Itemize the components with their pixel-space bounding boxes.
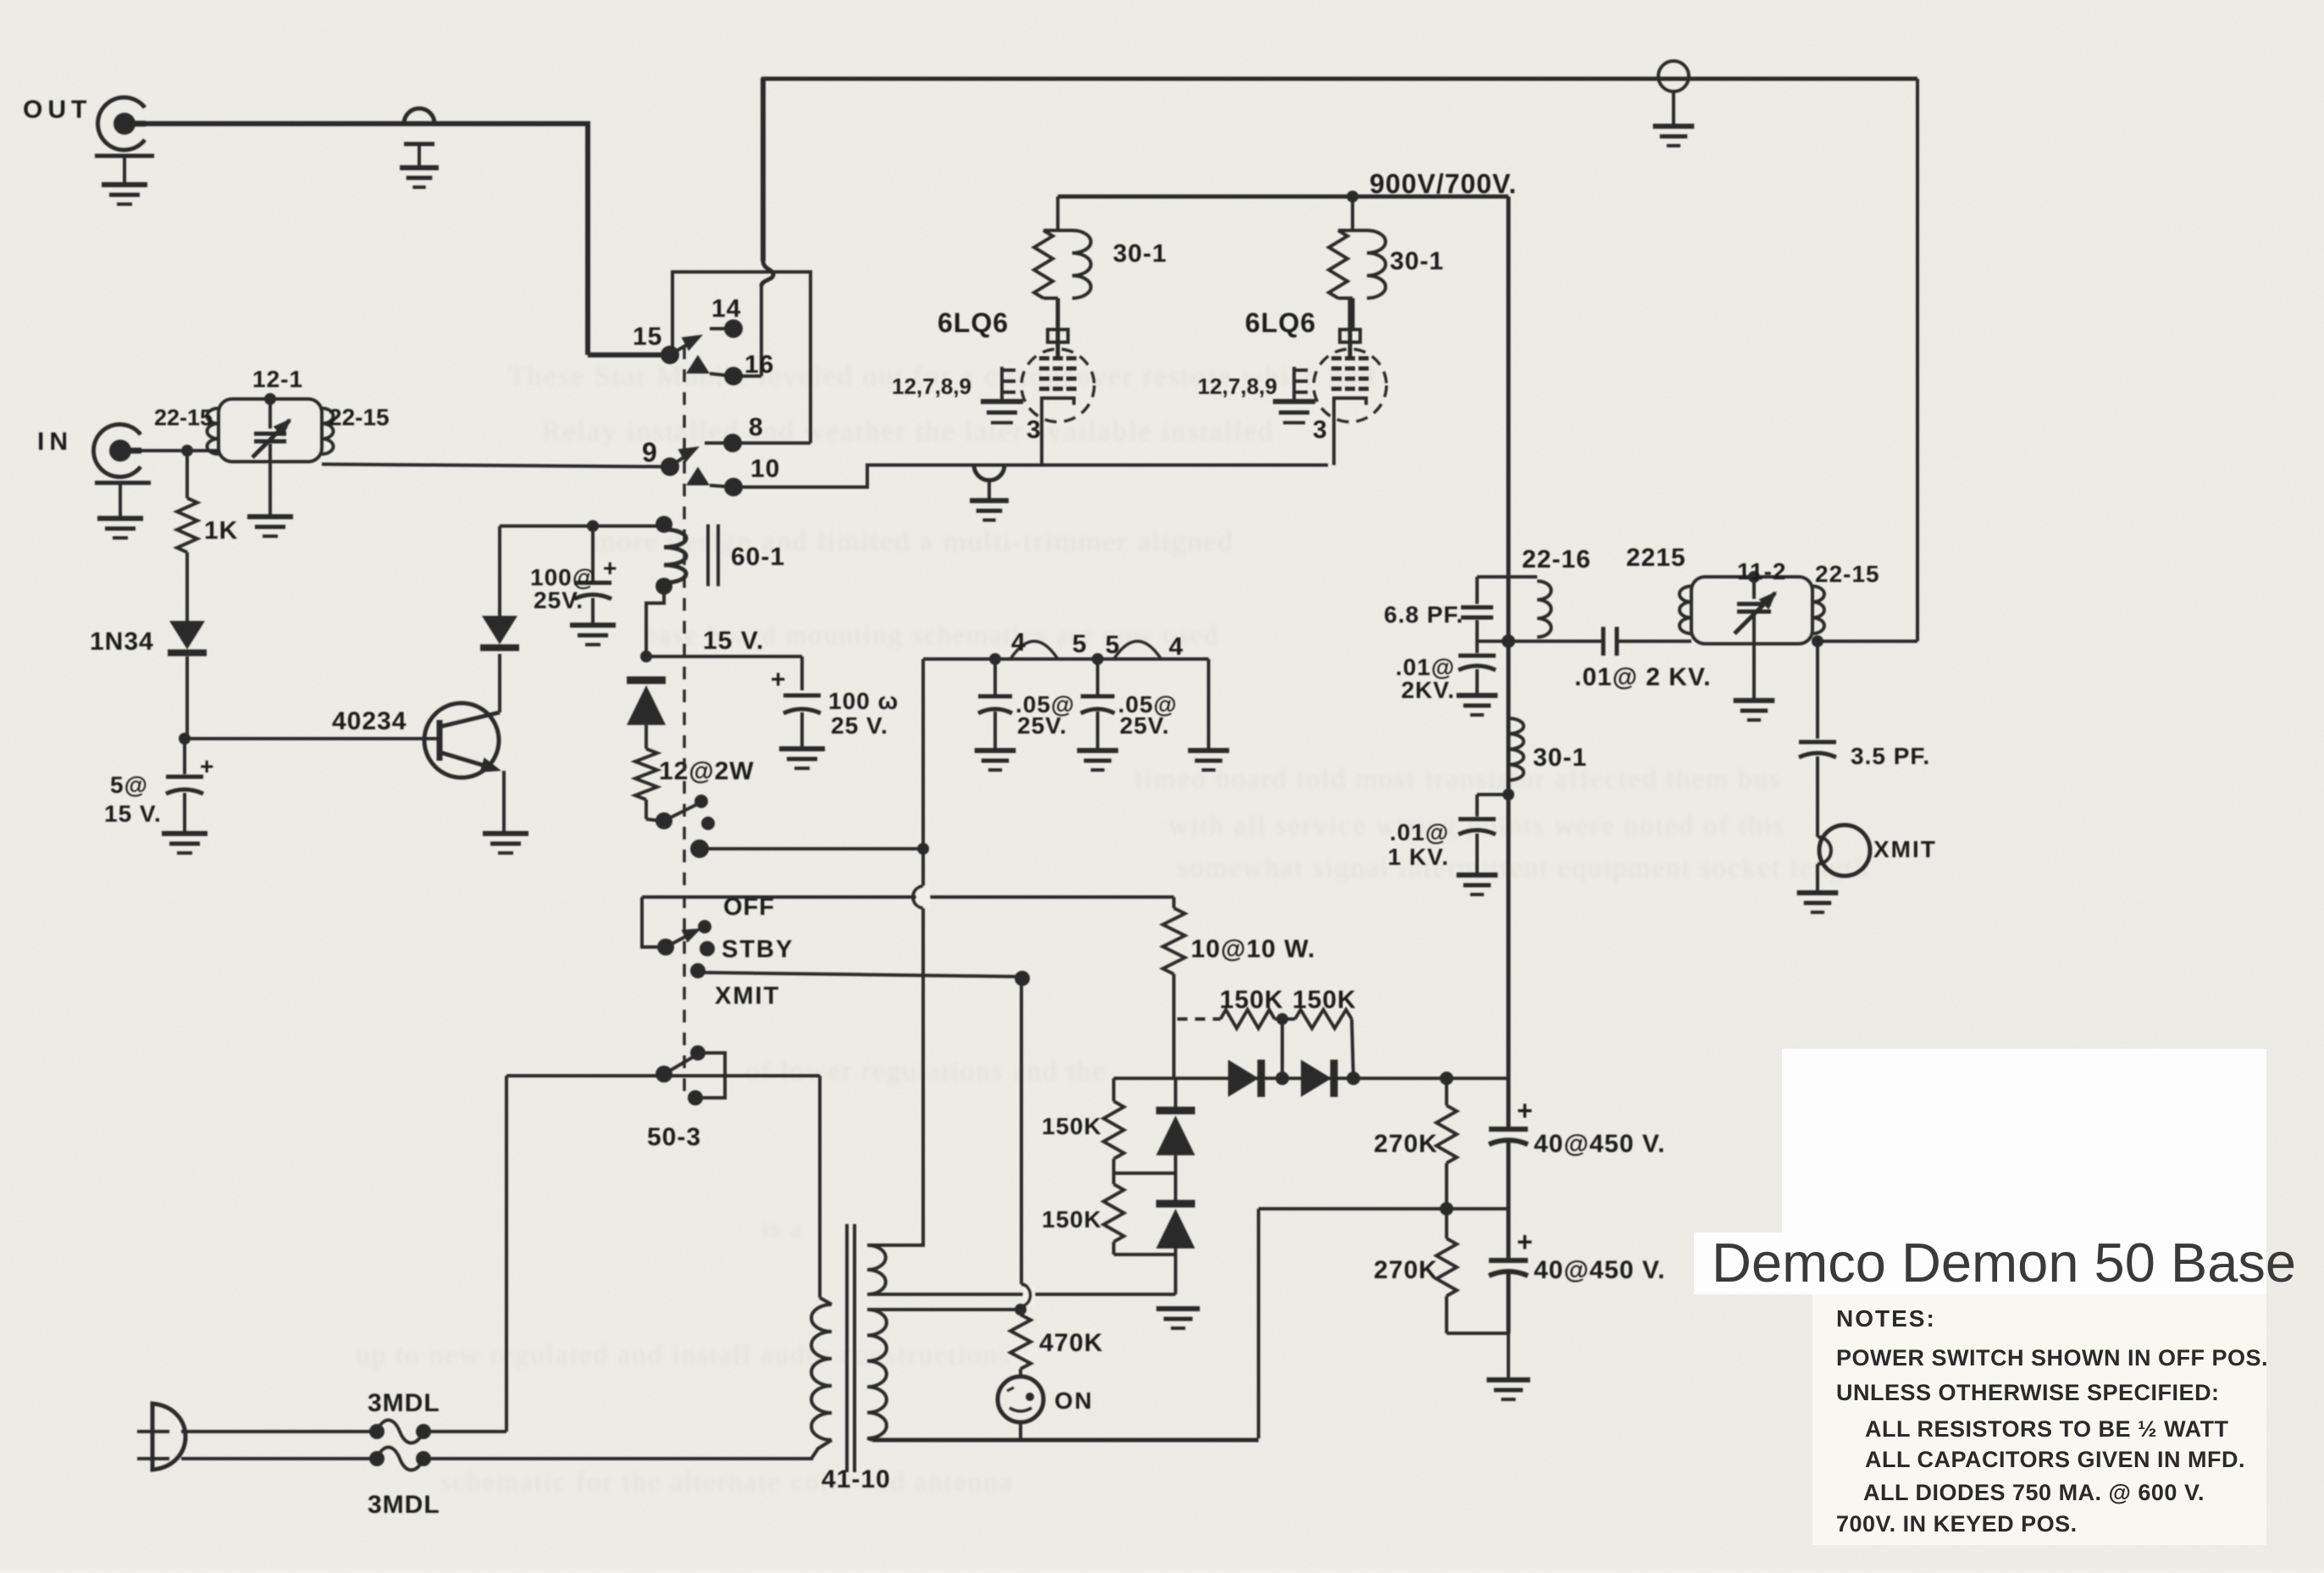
svg-text:150K: 150K [1292,986,1357,1014]
svg-text:15: 15 [633,323,662,351]
svg-text:30-1: 30-1 [1113,240,1167,268]
svg-text:40@450 V.: 40@450 V. [1534,1256,1666,1284]
svg-text:schematic for the alternate co: schematic for the alternate coils and an… [440,1467,1013,1498]
svg-text:4: 4 [1011,629,1026,656]
svg-text:25V.: 25V. [534,587,584,613]
svg-text:150K: 150K [1042,1113,1102,1139]
svg-text:270K: 270K [1374,1130,1438,1158]
svg-text:12,7,8,9: 12,7,8,9 [1198,374,1277,399]
svg-text:16: 16 [744,351,774,379]
svg-text:22-16: 22-16 [1522,546,1591,573]
svg-text:XMIT: XMIT [715,983,780,1010]
svg-text:10: 10 [750,455,780,483]
svg-text:2KV.: 2KV. [1401,677,1455,703]
svg-text:3MDL: 3MDL [368,1491,440,1519]
svg-text:25 V.: 25 V. [831,712,888,739]
svg-text:3.5 PF.: 3.5 PF. [1851,743,1930,769]
svg-text:more design and limited a mult: more design and limited a multi-trimmer … [593,526,1234,557]
svg-text:3MDL: 3MDL [368,1389,440,1417]
svg-text:3: 3 [1026,416,1042,444]
svg-text:700V. IN KEYED POS.: 700V. IN KEYED POS. [1836,1511,2078,1537]
svg-text:22-15: 22-15 [329,404,390,430]
svg-text:+: + [1517,1227,1534,1257]
svg-text:5@: 5@ [110,772,148,798]
svg-text:5: 5 [1072,630,1087,658]
svg-text:STBY: STBY [722,936,794,963]
svg-text:+: + [603,555,617,581]
svg-text:somewhat signal intermittent e: somewhat signal intermittent equipment s… [1177,853,1870,883]
svg-text:60-1: 60-1 [731,543,785,571]
svg-text:ON: ON [1054,1387,1093,1414]
svg-text:15 V.: 15 V. [703,627,764,655]
svg-text:150K: 150K [1220,986,1284,1014]
svg-text:14: 14 [711,295,741,323]
svg-text:10@10 W.: 10@10 W. [1191,935,1315,963]
svg-text:22-15: 22-15 [154,405,213,430]
svg-text:2215: 2215 [1626,544,1686,572]
svg-text:ALL CAPACITORS GIVEN IN MFD.: ALL CAPACITORS GIVEN IN MFD. [1865,1447,2245,1472]
svg-text:25V.: 25V. [1017,712,1067,739]
svg-text:timed board told most transist: timed board told most transistor affecte… [1135,764,1782,795]
svg-text:3: 3 [1313,416,1328,444]
svg-text:+: + [771,666,787,694]
svg-text:NOTES:: NOTES: [1836,1305,1936,1332]
svg-text:8: 8 [749,413,764,441]
svg-text:6LQ6: 6LQ6 [938,307,1009,338]
svg-text:is a: is a [762,1215,804,1243]
svg-text:11-2: 11-2 [1737,558,1787,584]
svg-text:15 V.: 15 V. [104,800,162,827]
svg-text:1K: 1K [204,517,238,545]
svg-text:ALL RESISTORS TO BE ½ WATT: ALL RESISTORS TO BE ½ WATT [1865,1416,2229,1442]
svg-text:ALL DIODES 750 MA. @ 600 V.: ALL DIODES 750 MA. @ 600 V. [1863,1480,2205,1505]
svg-text:100 ω: 100 ω [828,688,899,714]
svg-text:40234: 40234 [332,707,407,735]
svg-text:40@450 V.: 40@450 V. [1534,1130,1666,1158]
svg-text:22-15: 22-15 [1815,561,1880,587]
svg-text:OUT: OUT [23,96,91,124]
svg-text:1 KV.: 1 KV. [1388,844,1449,870]
svg-text:50-3: 50-3 [647,1123,701,1151]
svg-text:up to new regulated and instal: up to new regulated and install audio co… [356,1340,1011,1371]
svg-text:9: 9 [642,437,658,468]
svg-text:900V/700V.: 900V/700V. [1369,169,1517,199]
svg-text:4: 4 [1169,633,1184,661]
svg-text:470K: 470K [1039,1329,1104,1357]
svg-text:150K: 150K [1042,1206,1102,1232]
svg-text:25V.: 25V. [1120,712,1170,739]
svg-text:5: 5 [1105,631,1120,659]
svg-text:12,7,8,9: 12,7,8,9 [892,374,971,399]
svg-text:12@2W: 12@2W [659,757,755,785]
svg-text:.01@ 2 KV.: .01@ 2 KV. [1574,663,1712,691]
svg-text:6LQ6: 6LQ6 [1245,307,1316,338]
svg-text:IN: IN [37,428,73,456]
svg-text:+: + [1517,1095,1534,1126]
svg-text:41-10: 41-10 [822,1465,891,1493]
svg-text:30-1: 30-1 [1533,744,1587,772]
svg-text:12-1: 12-1 [252,366,303,392]
svg-text:1N34: 1N34 [90,628,154,656]
svg-text:.01@: .01@ [1390,819,1449,845]
svg-text:270K: 270K [1374,1256,1438,1284]
svg-text:UNLESS OTHERWISE SPECIFIED:: UNLESS OTHERWISE SPECIFIED: [1836,1380,2220,1405]
svg-text:6.8 PF.: 6.8 PF. [1384,601,1464,628]
svg-text:Demco Demon 50 Base: Demco Demon 50 Base [1712,1232,2296,1293]
svg-text:of lower regulations and the: of lower regulations and the [745,1056,1106,1087]
svg-text:POWER SWITCH SHOWN IN OFF POS.: POWER SWITCH SHOWN IN OFF POS. [1836,1345,2268,1371]
svg-text:XMIT: XMIT [1873,836,1937,862]
svg-text:30-1: 30-1 [1390,247,1444,275]
